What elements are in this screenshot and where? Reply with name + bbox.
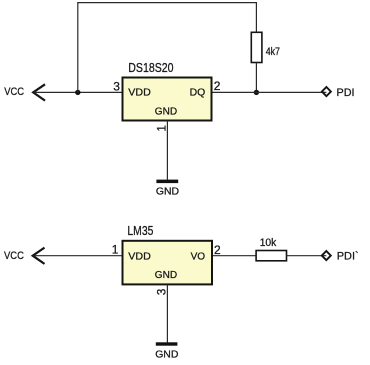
svg-text:3: 3 [157, 289, 169, 295]
svg-text:VCC: VCC [4, 250, 24, 262]
svg-text:VO: VO [191, 251, 206, 263]
wire: R2 to PDI' flag [287, 255, 327, 257]
wire: U2 GND pin to ground symbol [166, 284, 168, 342]
svg-text:DQ: DQ [190, 87, 206, 99]
junction: VCC node / pull-up branch [75, 90, 80, 95]
svg-text:10k: 10k [260, 237, 277, 249]
svg-text:PDI: PDI [337, 87, 355, 99]
svg-text:2: 2 [214, 243, 221, 257]
svg-text:DS18S20: DS18S20 [128, 61, 173, 75]
wire: VCC to DS18S20 pin 3 (VDD) [34, 91, 123, 93]
IC U1 DS18S20 body [123, 78, 212, 121]
wire: R1 top lead [255, 2, 257, 33]
svg-text:4k7: 4k7 [266, 46, 280, 58]
svg-text:GND: GND [155, 269, 178, 281]
resistor R2 body (10k series) [256, 251, 286, 261]
net flag PDI': diamond symbol [322, 251, 331, 260]
svg-text:VDD: VDD [128, 87, 151, 99]
svg-text:3: 3 [113, 79, 120, 93]
wire: top horizontal run to R1 [77, 2, 256, 4]
svg-text:PDI`: PDI` [337, 250, 359, 262]
resistor R1 body (4k7 pull-up) [251, 32, 262, 62]
wire: VCC to LM35 pin 1 (VDD) [34, 255, 123, 257]
net flag PDI: diamond symbol [322, 87, 331, 96]
wire: R1 bottom lead to DQ net [255, 63, 257, 93]
svg-text:VCC: VCC [4, 86, 24, 98]
net flag VCC bottom: arrow symbol [33, 248, 45, 264]
svg-text:GND: GND [155, 348, 179, 360]
wire: LM35 VO (pin 2) to R2 [212, 255, 256, 257]
svg-text:1: 1 [157, 125, 169, 131]
svg-text:GND: GND [156, 186, 180, 198]
ground symbol (U2) bar [156, 342, 178, 345]
wire: vertical riser from VCC junction [77, 3, 79, 93]
svg-text:GND: GND [155, 105, 178, 117]
svg-text:1: 1 [112, 242, 119, 256]
svg-text:VDD: VDD [128, 251, 151, 263]
net flag VCC top: arrow symbol [33, 84, 45, 100]
junction: DQ net / R1 [254, 90, 259, 95]
IC U2 LM35 body [123, 241, 213, 285]
svg-text:LM35: LM35 [127, 224, 153, 238]
wire: U1 GND pin to ground symbol [166, 121, 168, 180]
svg-text:2: 2 [214, 79, 221, 93]
wire: DS18S20 DQ (pin 2) to PDI flag [212, 91, 327, 93]
ground symbol (U1) bar [156, 180, 178, 184]
